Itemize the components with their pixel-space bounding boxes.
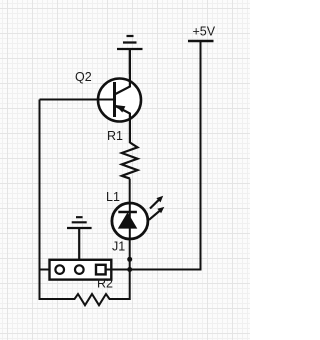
svg-text:+5V: +5V xyxy=(193,25,216,39)
svg-text:Q2: Q2 xyxy=(75,70,92,84)
svg-text:J1: J1 xyxy=(112,240,125,254)
svg-text:R1: R1 xyxy=(107,129,123,143)
svg-text:R2: R2 xyxy=(97,277,113,291)
svg-text:L1: L1 xyxy=(106,190,120,204)
